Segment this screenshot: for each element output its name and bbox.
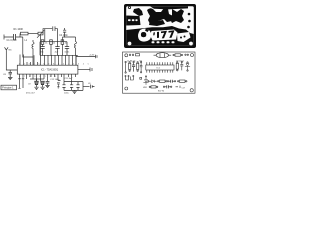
top small pads right: [185, 54, 189, 55]
PCB board black: [124, 4, 196, 48]
right column capacitor: [180, 61, 183, 70]
IC bottom pin stubs: [18, 74, 75, 88]
IC top pin stubs: [20, 43, 76, 65]
wire bottom left bus: [30, 78, 44, 80]
output terminal: [90, 68, 92, 72]
trace bottom mass: [126, 26, 194, 46]
glyph 7b: [169, 30, 175, 38]
svg-text:470u 4n7: 470u 4n7: [26, 92, 36, 94]
mounting hole BL: [125, 87, 128, 90]
svg-text:C17: C17: [182, 87, 185, 89]
capacitor C2 with ground: [8, 70, 13, 80]
diode D2: [143, 76, 148, 85]
wire C4 line down: [44, 29, 46, 42]
top pads left: [129, 54, 139, 56]
wire bank to terminal: [83, 86, 90, 88]
IC DIP pads bottom: [147, 70, 173, 73]
wire bus y55.3: [40, 42, 78, 56]
top resistor right: [173, 54, 183, 56]
board outline: [123, 52, 196, 93]
left column capacitor: [132, 61, 135, 71]
inductor L2: [74, 37, 76, 55]
corner hole BR: [189, 42, 193, 46]
wire IC right to output terminal: [78, 69, 90, 71]
jumper staple 1: [125, 75, 129, 80]
svg-text:R1 100K: R1 100K: [14, 28, 24, 31]
IC DIP body: [146, 65, 174, 70]
slope dots: [180, 37, 182, 39]
PCB black traces: [126, 6, 194, 46]
wire mid rail y41.7: [40, 41, 67, 43]
IC DIP pads top: [147, 62, 173, 65]
right column resistor: [176, 62, 178, 71]
left column cap 2: [140, 61, 143, 73]
trace L piece top left: [133, 8, 143, 16]
small cap left of bank: [57, 83, 60, 88]
node dots bus: [42, 55, 76, 56]
svg-text:C1 0,68F: C1 0,68F: [7, 39, 18, 42]
node dots bottom bus: [36, 78, 41, 79]
glyph 7: [161, 31, 167, 39]
caption box: [1, 85, 17, 90]
glyph quote: [153, 32, 155, 35]
wire R1 to P1: [28, 33, 38, 35]
input ground M1: [5, 47, 18, 70]
svg-text:6 7 8 9 0 1 2 3: 6 7 8 9 0 1 2 3: [19, 76, 58, 78]
bottom row2 part left: [149, 86, 158, 88]
PCB black details on white: [128, 6, 186, 39]
glyph 1: [157, 32, 159, 38]
supply terminal bottom right: [91, 85, 95, 89]
svg-text:C13 4n7: C13 4n7: [65, 78, 74, 80]
ground C9: [34, 87, 38, 89]
resistor R2 vertical: [41, 40, 44, 47]
mounting hole BR: [190, 89, 193, 92]
left column resistor: [129, 62, 131, 72]
resistor R3 vertical: [50, 40, 53, 56]
resistor R4 vertical: [61, 40, 64, 56]
svg-text:C4 100n: C4 100n: [59, 35, 68, 37]
electrolytic C10: [41, 81, 45, 87]
mounting hole TR: [191, 54, 194, 57]
small pad square: [140, 77, 142, 79]
right column diode: [185, 62, 190, 71]
PCB white details: [128, 7, 194, 46]
input terminal J1: [4, 35, 13, 40]
left network vertical: [20, 37, 33, 57]
left column resistor 2: [137, 62, 139, 72]
capacitor C16 inline: [76, 85, 79, 88]
hole TL white center: [129, 7, 130, 8]
bottom row2 cap: [163, 85, 172, 88]
output cap bank rails: [58, 81, 83, 91]
capacitor C5: [40, 47, 44, 56]
white slope right: [177, 32, 191, 42]
white dashes in left block: [128, 19, 131, 21]
curl center: [141, 32, 146, 37]
corner hole BL: [128, 42, 132, 46]
svg-text:100n: 100n: [64, 51, 70, 53]
capacitor C4: [53, 26, 58, 41]
capacitor C1: [13, 34, 20, 40]
wire node jog: [19, 34, 21, 38]
wire top right rail: [63, 37, 76, 42]
capacitor C7: [65, 42, 69, 56]
svg-text:ELV 94: ELV 94: [158, 91, 164, 93]
white 17 band: [150, 30, 178, 41]
potentiometer P1: [37, 30, 44, 43]
node dots mid rail: [42, 41, 63, 42]
trace right X blob: [170, 9, 184, 23]
capacitor C14 inline: [62, 85, 65, 88]
svg-text:IC1 - TDA1560Q: IC1 - TDA1560Q: [41, 69, 58, 72]
left column part 1: [125, 61, 126, 73]
curl gap mark: [145, 29, 149, 33]
wire P1 to C4: [43, 29, 52, 34]
trace feet mid: [149, 20, 165, 26]
node dot C3 rail: [64, 36, 65, 37]
trace top arm: [150, 6, 188, 9]
trace left block: [126, 16, 140, 26]
corner hole TR: [190, 7, 194, 11]
svg-text:+14V: +14V: [89, 54, 95, 56]
svg-text:Principe 1: Principe 1: [2, 86, 14, 90]
ground below bank: [72, 90, 76, 93]
axial capacitor oval: [154, 53, 172, 58]
PCB interior white: [126, 6, 194, 46]
corner hole TL ring: [128, 6, 131, 9]
resistor R1: [21, 32, 29, 35]
capacitor C6: [55, 42, 59, 56]
bottom resistor 1: [158, 80, 168, 82]
svg-text:VER: VER: [143, 87, 148, 89]
bottom row2 marks: [176, 86, 181, 88]
bottom resistor 2: [178, 80, 188, 82]
IC1 body: [17, 65, 78, 74]
power rail right: [76, 55, 96, 65]
white dash row bottom: [152, 41, 155, 43]
terminal 14V: [96, 55, 98, 58]
inductor L1: [32, 42, 34, 65]
white curl ring: [138, 29, 151, 42]
capacitor C15 inline: [70, 85, 73, 88]
mounting hole TL: [125, 54, 128, 57]
jumper staple 2: [131, 75, 134, 80]
capacitor C3: [63, 28, 66, 37]
capacitor C12 with ground: [45, 82, 49, 88]
electrolytic C9: [35, 79, 39, 87]
bottom capacitor mid: [167, 80, 175, 83]
trace right pads: [188, 13, 191, 16]
diode D3: [148, 80, 157, 83]
ground C10: [40, 87, 44, 89]
trace mountain cluster: [147, 8, 173, 24]
